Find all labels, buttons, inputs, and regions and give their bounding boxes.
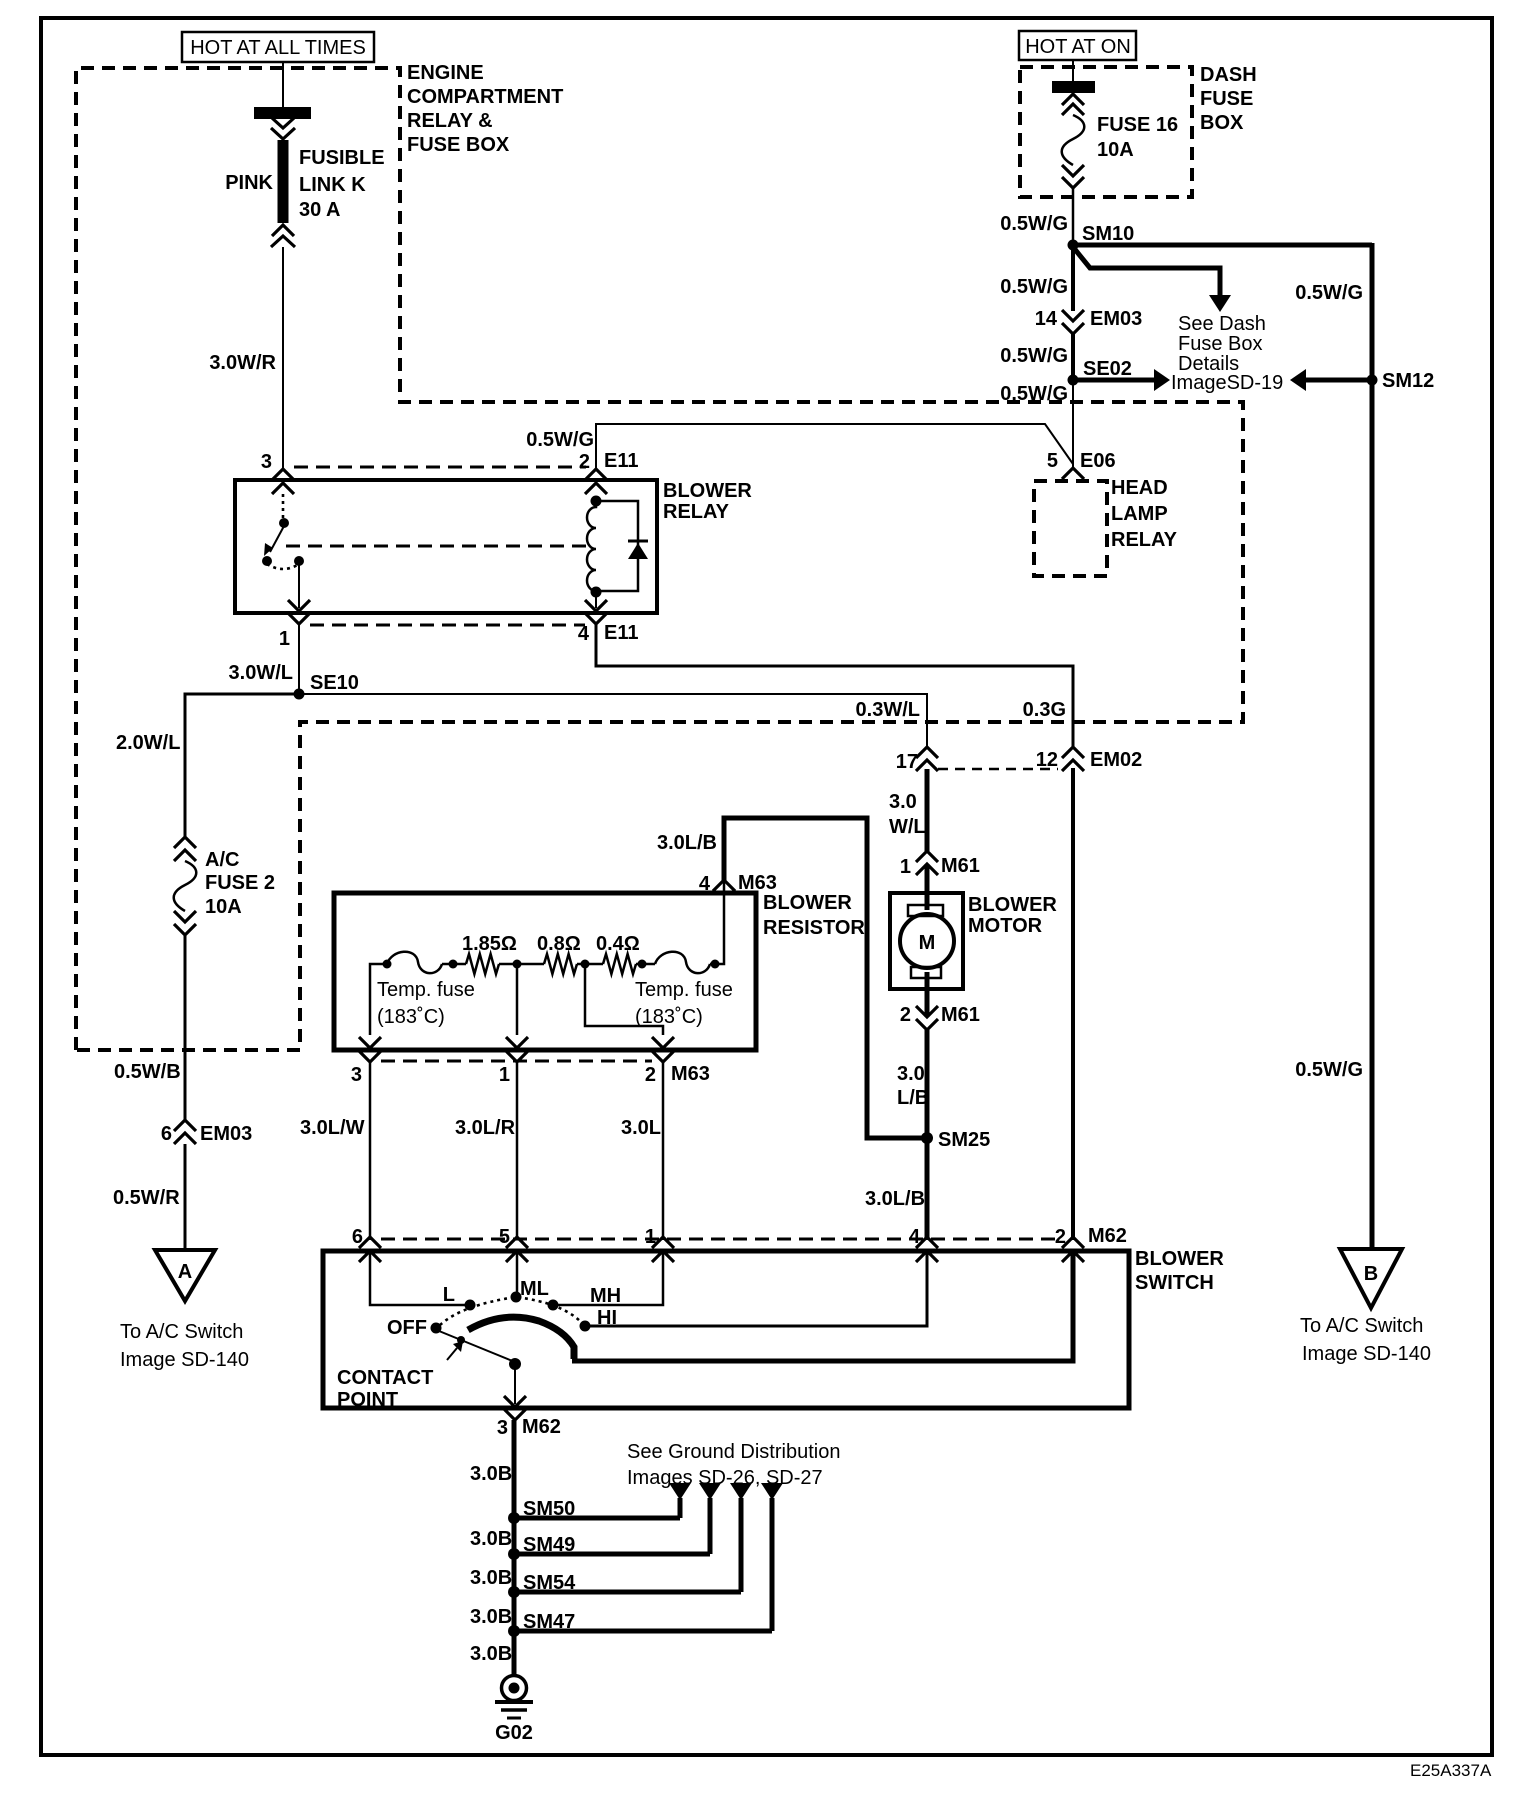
svg-text:EM02: EM02 <box>1090 749 1142 771</box>
connector 2 M61 (chevron pair down) <box>900 1004 980 1030</box>
svg-text:3: 3 <box>261 451 272 473</box>
wire 3.0L pin 2 to switch pin 1 <box>662 1062 665 1240</box>
dashed line through middle of relay <box>286 545 588 548</box>
svg-text:3.0W/L: 3.0W/L <box>229 662 293 684</box>
switch pin 3 connector (chevron below box) <box>497 1409 561 1439</box>
svg-text:FUSE 16: FUSE 16 <box>1097 114 1178 136</box>
node SM49 with branch <box>508 1534 710 1560</box>
resistor 0.8 ohm zigzag <box>544 954 577 974</box>
svg-text:12: 12 <box>1036 749 1058 771</box>
svg-text:A: A <box>178 1261 192 1283</box>
wire up to pin 4 M63 <box>710 880 724 964</box>
svg-text:E06: E06 <box>1080 450 1116 472</box>
svg-text:3.0L/B: 3.0L/B <box>657 832 717 854</box>
svg-text:5: 5 <box>1047 450 1058 472</box>
contact OFF dot and label <box>387 1317 442 1339</box>
blower relay label <box>663 480 752 523</box>
svg-text:10A: 10A <box>205 896 242 918</box>
arrowhead pin 3 inside box <box>359 1037 381 1048</box>
svg-text:HEAD: HEAD <box>1111 477 1168 499</box>
wire 0.5W/R down to triangle A <box>184 1144 187 1251</box>
relay switch contact: dotted lead from pin 3 <box>282 494 285 518</box>
switch wire pin 4 to contact HI <box>590 1251 927 1326</box>
svg-text:SM10: SM10 <box>1082 223 1134 245</box>
resistor pin 1 connector (chevron below box) <box>499 1051 528 1086</box>
svg-text:Temp. fuse: Temp. fuse <box>635 979 733 1001</box>
arrow SE02 to ImageSD-19 <box>1073 369 1170 391</box>
svg-text:M: M <box>919 932 936 954</box>
svg-text:EM03: EM03 <box>200 1123 252 1145</box>
wire 3.0L/B from resistor pin 4 over to SM25 <box>724 818 922 1138</box>
label 3.0 L/B <box>897 1063 929 1109</box>
relay coil lower dot <box>591 587 602 598</box>
svg-text:1: 1 <box>499 1064 510 1086</box>
fusible link K lower chevrons (up) <box>271 225 295 247</box>
svg-text:17: 17 <box>896 751 918 773</box>
wire 0.8 ohm to junction 2 <box>577 963 603 966</box>
pivot dot <box>509 1358 521 1370</box>
svg-text:0.4Ω: 0.4Ω <box>596 933 640 955</box>
svg-text:HOT AT ON: HOT AT ON <box>1025 36 1131 58</box>
temp fuse 1 squiggle <box>387 952 442 973</box>
connector 6 EM03 (chevron pair up) <box>161 1120 252 1145</box>
wire 0.5W/G from relay pin2 E11 up and over to E06 <box>596 424 1073 469</box>
switch pin 2 connector (chevron pair) <box>1055 1225 1127 1262</box>
switch pin 5 connector (chevron pair) <box>499 1226 528 1262</box>
wire 3.0L/W pin 3 to switch pin 6 <box>369 1062 372 1240</box>
wire from HOT AT ON down to fuse 16 <box>1072 60 1074 82</box>
svg-text:0.5W/G: 0.5W/G <box>1295 282 1363 304</box>
svg-text:6: 6 <box>352 1226 363 1248</box>
wire SM10 right to right margin <box>1071 243 1372 248</box>
ground distribution arrow 2 <box>699 1483 721 1554</box>
wire from HOT AT ALL TIMES down to fusible link <box>282 62 284 108</box>
svg-text:3.0B: 3.0B <box>470 1606 512 1628</box>
svg-text:MH: MH <box>590 1285 621 1307</box>
dotted selector arc through contacts <box>440 1297 581 1325</box>
junction dot left of temp fuse 1 <box>383 960 392 969</box>
node SM54 with branch <box>508 1572 741 1598</box>
svg-text:SM47: SM47 <box>523 1611 575 1633</box>
svg-text:0.5W/B: 0.5W/B <box>114 1061 181 1083</box>
svg-text:ImageSD-19: ImageSD-19 <box>1171 372 1283 394</box>
svg-text:FUSE 2: FUSE 2 <box>205 872 275 894</box>
relay switch movable arm <box>264 526 284 556</box>
svg-text:3.0L/R: 3.0L/R <box>455 1117 516 1139</box>
svg-text:2: 2 <box>579 451 590 473</box>
arrow SM12 to ImageSD-19 <box>1290 369 1372 391</box>
contact ML dot and label <box>511 1278 549 1303</box>
svg-text:FUSE BOX: FUSE BOX <box>407 134 510 156</box>
svg-text:L: L <box>443 1284 455 1306</box>
svg-text:1.85Ω: 1.85Ω <box>462 933 517 955</box>
svg-text:0.5W/G: 0.5W/G <box>1000 345 1068 367</box>
relay coil wire to pin 4 with arrowhead <box>585 592 607 611</box>
wire pin 1 down to node SE10 <box>298 624 300 694</box>
resistor 1.85 ohm zigzag <box>466 954 499 974</box>
motor brush upper <box>908 905 943 916</box>
junction dot pin 1 tap <box>513 960 522 969</box>
svg-text:3.0B: 3.0B <box>470 1643 512 1665</box>
wire SM10 to connector EM03 <box>1071 245 1075 311</box>
svg-text:5: 5 <box>499 1226 510 1248</box>
note See Dash Fuse Box Details ImageSD-19 <box>1171 313 1283 394</box>
note To A/C Switch Image SD-140 (left) <box>120 1321 249 1371</box>
switch wire pin 1 to contact MH <box>557 1251 663 1305</box>
HOT AT ON box <box>1019 31 1136 60</box>
wire 0.3G down to blower switch pin 2 <box>1071 768 1075 1240</box>
svg-text:SWITCH: SWITCH <box>1135 1272 1214 1294</box>
node SM12 <box>1367 370 1435 392</box>
svg-text:3.0L: 3.0L <box>621 1117 661 1139</box>
svg-text:To A/C Switch: To A/C Switch <box>120 1321 243 1343</box>
contact HI dot and label <box>580 1307 618 1332</box>
svg-text:M61: M61 <box>941 855 980 877</box>
relay pin 1 connector (chevron below box) <box>279 613 310 650</box>
wire to 1.85 ohm <box>442 963 466 966</box>
svg-text:3.0L/W: 3.0L/W <box>300 1117 365 1139</box>
fuse 16 bus bar <box>1052 81 1095 93</box>
temp fuse 2 squiggle <box>655 952 710 973</box>
label 3.0 W/L <box>889 791 926 838</box>
svg-text:FUSE: FUSE <box>1200 88 1253 110</box>
switch pin 4 connector (chevron pair) <box>909 1226 938 1262</box>
blower switch box <box>323 1251 1129 1408</box>
svg-text:2: 2 <box>1055 1226 1066 1248</box>
A/C fuse 2 upper chevrons (up) <box>174 837 196 861</box>
wire 0.5W/B down to connector EM03 <box>184 935 187 1120</box>
svg-text:0.5W/G: 0.5W/G <box>1000 276 1068 298</box>
svg-text:SM25: SM25 <box>938 1129 990 1151</box>
svg-text:14: 14 <box>1035 308 1058 330</box>
svg-text:3.0B: 3.0B <box>470 1463 512 1485</box>
blower relay box <box>235 480 657 613</box>
wire 0.5W/G right side down to triangle B <box>1370 243 1375 1250</box>
A/C fuse 2 element squiggle <box>174 861 197 911</box>
label FUSIBLE LINK K 30 A <box>299 147 385 221</box>
branch SM10 to see-dash-fuse-box arrow <box>1073 247 1220 297</box>
label temp fuse 1 <box>377 979 475 1028</box>
svg-text:3.0: 3.0 <box>897 1063 925 1085</box>
HOT AT ALL TIMES box <box>182 32 374 62</box>
ground distribution arrow 4 <box>761 1483 783 1631</box>
svg-text:A/C: A/C <box>205 849 239 871</box>
svg-text:SE02: SE02 <box>1083 358 1132 380</box>
wire 0.4 ohm to temp fuse 2 <box>636 963 655 966</box>
connector 17 (chevron pair up) <box>896 747 938 773</box>
A/C fuse 2 lower chevrons (down) <box>174 911 196 935</box>
svg-text:MOTOR: MOTOR <box>968 915 1043 937</box>
svg-text:E11: E11 <box>604 622 638 644</box>
dash fuse box label <box>1200 64 1257 134</box>
connector 4 M63 (chevron up) on resistor top <box>699 872 777 895</box>
label A/C FUSE 2 10A <box>205 849 275 918</box>
svg-text:3.0B: 3.0B <box>470 1528 512 1550</box>
svg-text:G02: G02 <box>495 1722 533 1744</box>
contact L dot and label <box>443 1284 476 1311</box>
svg-text:SM49: SM49 <box>523 1534 575 1556</box>
contact MH dot and label <box>548 1285 622 1311</box>
blower motor box <box>890 893 963 989</box>
svg-text:2: 2 <box>645 1064 656 1086</box>
svg-text:See Ground Distribution: See Ground Distribution <box>627 1441 840 1463</box>
svg-text:Image SD-140: Image SD-140 <box>1302 1343 1431 1365</box>
label FUSE 16 10A <box>1097 114 1178 161</box>
fusible link K bus bar <box>254 107 311 119</box>
svg-text:OFF: OFF <box>387 1317 427 1339</box>
wire junction 1 down to pin 1 <box>516 964 519 1035</box>
relay pin 2 connector (chevron pair) <box>579 450 639 494</box>
node SE10 <box>294 672 359 700</box>
relay switch dotted arc <box>267 564 299 569</box>
connector 5 E06 (chevron up) <box>1047 450 1116 479</box>
svg-text:SE10: SE10 <box>310 672 359 694</box>
wire 2.0W/L from SE10 down left side <box>185 694 299 837</box>
wire 3.0 W/L connector 17 down to motor <box>925 769 930 851</box>
relay coil upper dot <box>591 496 602 507</box>
diode (cathode bar and triangle) <box>628 541 648 559</box>
svg-text:EM03: EM03 <box>1090 308 1142 330</box>
small dot on pivot arm <box>457 1336 465 1344</box>
svg-text:3: 3 <box>351 1064 362 1086</box>
node SM47 with branch <box>508 1611 772 1637</box>
svg-text:0.3W/L: 0.3W/L <box>856 699 920 721</box>
connector 1 M61 (chevron pair up) <box>900 851 980 878</box>
connector 14 EM03 (chevrons down) <box>1035 308 1143 334</box>
relay switch wire down to pin 1 with arrowhead <box>288 561 310 611</box>
svg-text:10A: 10A <box>1097 139 1134 161</box>
resistor pin 3 connector (chevron below box) <box>351 1051 381 1086</box>
dashed line between relay pins 1 and 4 <box>310 624 585 627</box>
svg-text:POINT: POINT <box>337 1389 398 1411</box>
svg-text:SM50: SM50 <box>523 1498 575 1520</box>
svg-text:1: 1 <box>900 856 911 878</box>
wire junction down and right to pin 2 <box>585 964 663 1035</box>
wire pivot down to pin 3 with arrowhead <box>504 1364 526 1407</box>
ground G02 symbol <box>495 1676 533 1745</box>
note To A/C Switch Image SD-140 (right) <box>1300 1315 1431 1365</box>
svg-text:2: 2 <box>900 1004 911 1026</box>
svg-text:CONTACT: CONTACT <box>337 1367 433 1389</box>
relay switch contact dot right <box>294 556 304 566</box>
svg-text:LINK K: LINK K <box>299 174 366 196</box>
svg-text:0.8Ω: 0.8Ω <box>537 933 581 955</box>
arrowhead pin 1 inside box <box>506 1037 528 1048</box>
svg-text:6: 6 <box>161 1123 172 1145</box>
resistor pin 2 connector (chevron below box) <box>645 1051 710 1086</box>
svg-text:Temp. fuse: Temp. fuse <box>377 979 475 1001</box>
svg-text:3: 3 <box>497 1417 508 1439</box>
ground distribution arrow 1 <box>669 1483 691 1518</box>
svg-text:3.0B: 3.0B <box>470 1567 512 1589</box>
svg-text:To A/C Switch: To A/C Switch <box>1300 1315 1423 1337</box>
svg-text:3.0: 3.0 <box>889 791 917 813</box>
svg-text:RELAY &: RELAY & <box>407 110 493 132</box>
svg-text:B: B <box>1364 1263 1378 1285</box>
off-page triangle B <box>1340 1249 1402 1308</box>
fusible link K element (thick bar) <box>278 140 289 223</box>
svg-text:ML: ML <box>520 1278 549 1300</box>
svg-text:BLOWER: BLOWER <box>968 894 1057 916</box>
junction dot after temp fuse 2 <box>711 960 720 969</box>
resistor internal chain left drop to pin 3 <box>370 964 387 1035</box>
fuse 16 element squiggle <box>1062 115 1085 165</box>
arrowhead pin 2 inside box <box>652 1037 674 1048</box>
svg-text:FUSIBLE: FUSIBLE <box>299 147 385 169</box>
wire 3.0W/R from fusible link to relay pin 3 <box>282 247 284 469</box>
switch wire pin 5 to contact ML <box>516 1251 519 1294</box>
svg-text:L/B: L/B <box>897 1087 929 1109</box>
wire pin 4 E11 over to 0.3G drop <box>596 624 1073 747</box>
svg-text:HOT AT ALL TIMES: HOT AT ALL TIMES <box>190 37 366 59</box>
switch wire pin 6 to contact L <box>370 1251 466 1305</box>
svg-text:30 A: 30 A <box>299 199 341 221</box>
fusible link K connector chevrons (down) <box>271 118 295 139</box>
head lamp relay label <box>1111 477 1178 551</box>
svg-text:2.0W/L: 2.0W/L <box>116 732 180 754</box>
svg-text:SM54: SM54 <box>523 1572 576 1594</box>
CONTACT POINT label <box>337 1367 433 1411</box>
dash fuse box dashed enclosure <box>1020 67 1192 197</box>
svg-text:(183˚C): (183˚C) <box>635 1006 703 1028</box>
svg-text:M62: M62 <box>522 1416 561 1438</box>
svg-text:W/L: W/L <box>889 816 926 838</box>
svg-text:E11: E11 <box>604 450 638 472</box>
svg-text:DASH: DASH <box>1200 64 1257 86</box>
junction dot pin 2 tap <box>581 960 590 969</box>
wire fuse 16 to SM10 <box>1072 188 1075 245</box>
blower resistor box <box>334 893 756 1050</box>
svg-text:Image SD-140: Image SD-140 <box>120 1349 249 1371</box>
wire SE02 down to E06 <box>1072 385 1074 468</box>
svg-text:RELAY: RELAY <box>663 501 730 523</box>
svg-text:E25A337A: E25A337A <box>1410 1761 1492 1780</box>
svg-text:Fuse Box: Fuse Box <box>1178 333 1262 355</box>
node SM25 <box>921 1129 990 1151</box>
svg-text:0.5W/R: 0.5W/R <box>113 1187 180 1209</box>
svg-text:M63: M63 <box>738 872 777 894</box>
ground distribution arrow 3 <box>730 1483 752 1592</box>
blower switch label <box>1135 1248 1224 1294</box>
motor armature circle with M <box>900 914 954 968</box>
switch pin 1 connector (chevron pair) <box>645 1226 674 1262</box>
blower motor label <box>968 894 1057 937</box>
arrowhead down to see dash fuse box details <box>1209 295 1231 312</box>
svg-text:0.5W/G: 0.5W/G <box>1000 213 1068 235</box>
svg-text:M61: M61 <box>941 1004 980 1026</box>
svg-text:PINK: PINK <box>225 172 273 194</box>
svg-text:M63: M63 <box>671 1063 710 1085</box>
svg-text:0.5W/G: 0.5W/G <box>526 429 594 451</box>
svg-text:4: 4 <box>909 1226 921 1248</box>
wire 1.85 ohm to junction 1 <box>499 963 544 966</box>
svg-text:1: 1 <box>279 628 290 650</box>
svg-text:4: 4 <box>578 623 590 645</box>
wire motor down to 2 M61 <box>925 972 930 1017</box>
label temp fuse 2 <box>635 979 733 1028</box>
svg-text:3.0W/R: 3.0W/R <box>209 352 276 374</box>
relay pin 4 connector (chevron below box) <box>578 613 639 645</box>
svg-text:COMPARTMENT: COMPARTMENT <box>407 86 563 108</box>
note See Ground Distribution Images SD-26, SD-27 <box>627 1441 840 1489</box>
svg-text:M62: M62 <box>1088 1225 1127 1247</box>
connector 12 EM02 (chevron pair up) <box>1036 747 1143 771</box>
svg-text:0.3G: 0.3G <box>1023 699 1066 721</box>
svg-text:BOX: BOX <box>1200 112 1244 134</box>
junction dot before temp fuse 2 <box>638 960 647 969</box>
svg-text:BLOWER: BLOWER <box>663 480 752 502</box>
svg-text:RESISTOR: RESISTOR <box>763 917 865 939</box>
relay pin 3 connector (chevron pair) <box>261 451 294 494</box>
svg-text:See Dash: See Dash <box>1178 313 1266 335</box>
off-page triangle A <box>155 1250 215 1301</box>
fuse 16 lower chevrons (down) <box>1062 165 1084 188</box>
svg-text:(183˚C): (183˚C) <box>377 1006 445 1028</box>
wire M61 into motor <box>925 864 930 910</box>
relay diode branch wiring <box>596 501 638 591</box>
svg-text:Images SD-26, SD-27: Images SD-26, SD-27 <box>627 1467 823 1489</box>
dashed link between connectors 17 and 12 <box>938 768 1058 771</box>
svg-text:1: 1 <box>645 1226 656 1248</box>
svg-text:SM12: SM12 <box>1382 370 1434 392</box>
svg-text:HI: HI <box>597 1307 617 1329</box>
dashed line across switch pins <box>381 1238 1060 1241</box>
relay switch contact pole dot <box>279 518 289 528</box>
svg-text:0.5W/G: 0.5W/G <box>1295 1059 1363 1081</box>
wire EM03 to SE02 <box>1071 334 1075 380</box>
svg-text:BLOWER: BLOWER <box>1135 1248 1224 1270</box>
contact point pivot arm <box>439 1331 515 1362</box>
resistor 0.4 ohm zigzag <box>603 954 636 974</box>
wire wiper to switch pin 2 <box>572 1251 1073 1361</box>
wire 3.0 L/B motor to SM25 <box>925 1030 930 1240</box>
node SE02 <box>1068 358 1132 386</box>
wiper thick arc <box>468 1317 574 1359</box>
wire SE10 right to connector 17 <box>299 694 927 747</box>
contact point callout arrow <box>447 1341 463 1360</box>
svg-text:LAMP: LAMP <box>1111 503 1168 525</box>
switch pin 6 connector (chevron pair) <box>352 1226 381 1262</box>
svg-text:ENGINE: ENGINE <box>407 62 484 84</box>
head lamp relay dashed box <box>1034 481 1107 576</box>
wire 3.0B switch pin 3 down to ground <box>512 1420 517 1676</box>
dashed line below resistor pins <box>381 1060 652 1063</box>
wire 3.0L/R pin 1 to switch pin 5 <box>516 1062 519 1240</box>
svg-text:3.0L/B: 3.0L/B <box>865 1188 925 1210</box>
engine compartment relay & fuse box label <box>407 62 563 156</box>
junction dot before 1.85 ohm <box>449 960 458 969</box>
svg-text:BLOWER: BLOWER <box>763 892 852 914</box>
node SM10 <box>1068 223 1135 251</box>
relay switch contact dot left <box>262 556 272 566</box>
node SM50 with branch <box>508 1498 680 1524</box>
svg-text:RELAY: RELAY <box>1111 529 1178 551</box>
fuse 16 upper chevrons (up) <box>1062 94 1084 115</box>
engine compartment relay & fuse box dashed enclosure <box>76 68 1243 1050</box>
relay coil <box>587 501 596 591</box>
svg-text:4: 4 <box>699 873 711 895</box>
dashed line between relay pins 3 and 2 <box>294 466 586 469</box>
motor brush lower <box>911 967 941 978</box>
blower resistor label <box>763 892 865 939</box>
